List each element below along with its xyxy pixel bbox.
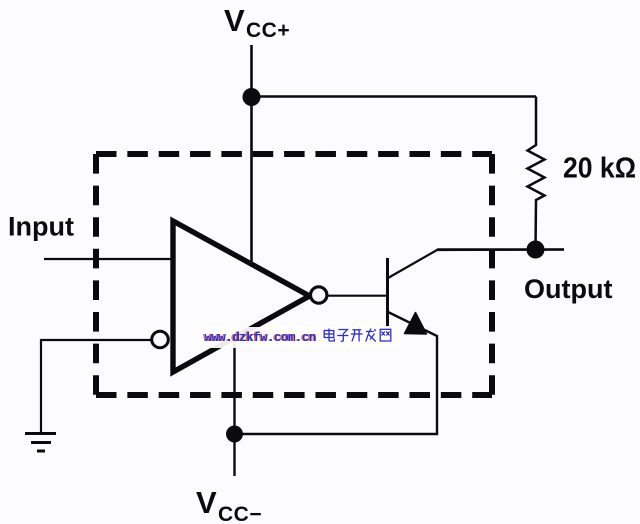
label VCC+: [224, 3, 290, 42]
wire top horizontal VCC+ to resistor: [252, 95, 537, 97]
svg-text:20 kΩ: 20 kΩ: [563, 153, 636, 185]
emitter arrow: [405, 313, 427, 335]
label VCC-: [196, 485, 262, 524]
junction dot at output node: [527, 241, 545, 259]
ground symbol: [25, 434, 56, 452]
char zi: [337, 330, 348, 342]
transistor collector wire to output node: [388, 250, 564, 279]
watermark CJK glyphs (hand drawn): [324, 329, 391, 342]
wire VCC+ vertical (top rail pin into comparator): [250, 45, 253, 263]
dashed IC boundary box: [96, 154, 492, 395]
svg-text:CC+: CC+: [246, 19, 290, 42]
wire output horizontal: [437, 248, 564, 250]
input bubble (inverting input): [152, 331, 169, 348]
wire VCC- pin from comparator bottom: [233, 338, 235, 476]
char wang: [380, 329, 391, 341]
watermark halo: [200, 327, 400, 348]
transistor Q1 base bar: [386, 258, 389, 326]
svg-text:Output: Output: [524, 274, 612, 304]
svg-text:V: V: [196, 485, 217, 520]
transistor emitter wire down to VCC- rail: [235, 312, 438, 434]
junction dot at VCC+: [243, 88, 261, 106]
char fa: [366, 329, 376, 342]
resistor R 20k zigzag: [528, 97, 545, 250]
char kai: [351, 330, 363, 342]
wire non-inverting input: [44, 258, 175, 260]
svg-text:V: V: [224, 3, 245, 38]
svg-text:www.dzkfw.com.cn: www.dzkfw.com.cn: [205, 331, 317, 345]
junction dot at VCC-: [226, 426, 243, 443]
output bubble (inverting output): [311, 287, 327, 303]
char dian: [324, 329, 334, 342]
svg-text:CC−: CC−: [218, 503, 262, 524]
wire inverting input to ground: [41, 340, 151, 433]
svg-text:Input: Input: [8, 212, 74, 242]
comparator triangle U1: [173, 221, 310, 372]
wire base of transistor: [326, 295, 387, 297]
